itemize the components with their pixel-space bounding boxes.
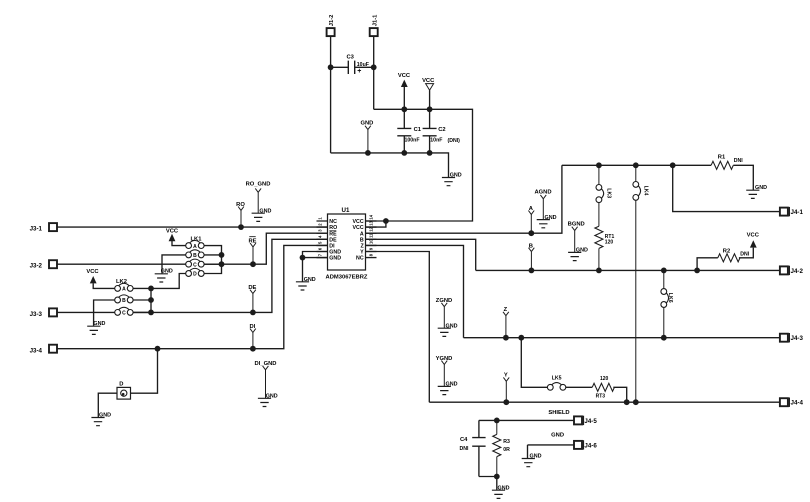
svg-text:J4-2: J4-2 <box>791 268 804 275</box>
ground earth C1 C2 rail <box>442 173 462 186</box>
svg-text:J4-6: J4-6 <box>584 442 597 449</box>
connector J4-2 <box>780 266 788 274</box>
svg-text:Z: Z <box>504 307 508 313</box>
svg-text:ADM3067EBRZ: ADM3067EBRZ <box>326 274 368 280</box>
junction U1 VCC pins <box>383 218 389 224</box>
svg-text:U1: U1 <box>342 207 350 214</box>
svg-text:LK4: LK4 <box>642 186 648 196</box>
wire LK1 row B to ground <box>162 255 186 274</box>
junction J4-3 rail LK6 <box>661 335 667 341</box>
svg-text:J1-1: J1-1 <box>372 14 378 26</box>
svg-text:GND: GND <box>329 250 341 256</box>
svg-text:J4-1: J4-1 <box>791 209 804 216</box>
svg-text:R3: R3 <box>503 439 510 445</box>
svg-text:AGND: AGND <box>534 189 551 195</box>
jumper LK1 row D <box>186 268 204 277</box>
svg-text:GND: GND <box>360 121 373 127</box>
wire RT3 to J4-4 rail <box>613 387 626 402</box>
svg-text:RO: RO <box>329 225 337 231</box>
svg-text:GND: GND <box>551 432 564 438</box>
junction top rail LK3 <box>596 162 602 168</box>
jumper LK5 <box>547 383 565 391</box>
svg-text:J4-3: J4-3 <box>791 335 804 342</box>
svg-text:D: D <box>119 381 123 387</box>
connector J4-1 <box>780 208 788 216</box>
svg-text:B: B <box>122 298 126 304</box>
capacitor C1 100nF <box>403 109 405 153</box>
ground earth LK1 B <box>155 269 173 282</box>
svg-text:J4-4: J4-4 <box>791 400 804 407</box>
svg-text:B: B <box>193 253 197 259</box>
svg-text:DNI: DNI <box>740 252 749 258</box>
svg-text:NC: NC <box>329 219 337 225</box>
junction C3 left <box>328 64 334 70</box>
U1 left pin stubs <box>317 221 328 258</box>
wire LK5 branch <box>521 338 547 388</box>
svg-text:R2: R2 <box>723 248 730 254</box>
capacitor C2 10nF DNI <box>429 109 431 153</box>
wire LK2 right bus <box>133 288 151 312</box>
jumper LK3 <box>598 165 600 226</box>
svg-text:LK6: LK6 <box>667 293 673 303</box>
connector J4-4 <box>780 398 788 406</box>
wire J3-2 to LK1 row C <box>57 263 186 265</box>
wire J3-1 to U1 RO <box>57 226 328 228</box>
svg-text:GND: GND <box>266 394 278 400</box>
svg-text:ZGND: ZGND <box>436 298 452 304</box>
svg-text:J3-1: J3-1 <box>30 226 43 233</box>
junction LK2 bus row C <box>148 310 154 316</box>
wire GND rail <box>331 153 449 177</box>
resistor R2 DNI <box>697 248 753 271</box>
wire U1 Z to J4-3 <box>366 245 780 337</box>
svg-text:13: 13 <box>369 220 374 225</box>
wire LK1 row D to LK2 row A <box>151 274 186 289</box>
svg-text:GND: GND <box>161 269 173 275</box>
junction C3 right <box>371 64 377 70</box>
wire J1-2 to GND rail <box>330 36 332 153</box>
wire GND to J4-6 <box>528 445 574 458</box>
jumper LK1 row B <box>186 250 204 259</box>
junction D loop branch <box>155 346 161 352</box>
wire U1 B to J4-2 <box>366 239 780 270</box>
junction R3 top <box>494 418 500 424</box>
wire J3-3 to LK2 row C <box>57 311 115 313</box>
svg-text:LK1: LK1 <box>191 237 203 243</box>
junction VCC rail C1 <box>401 106 407 112</box>
capacitor C3 10uF <box>331 66 374 68</box>
junction DI test point <box>250 346 256 352</box>
junction LK5 branch <box>518 335 524 341</box>
junction Y test point <box>503 399 509 405</box>
svg-text:100nF: 100nF <box>405 138 420 144</box>
svg-text:GND: GND <box>329 256 341 262</box>
svg-text:Y: Y <box>360 250 364 256</box>
svg-text:C1: C1 <box>414 127 422 133</box>
wire U1 VCC pin13 jog <box>366 221 386 227</box>
jumper LK2 row C <box>115 307 133 316</box>
svg-text:DI: DI <box>329 244 335 250</box>
svg-text:GND: GND <box>530 454 542 460</box>
U1 right pin stubs <box>366 221 377 258</box>
junction GND rail C1 <box>401 150 407 156</box>
svg-text:C: C <box>193 262 197 268</box>
svg-text:BGND: BGND <box>568 222 585 228</box>
jumper LK1 row C <box>186 259 204 268</box>
svg-text:RT3: RT3 <box>596 393 606 399</box>
junction GND rail port <box>365 150 371 156</box>
junction B rail LK6 <box>661 268 667 274</box>
ground earth R1 <box>746 185 767 198</box>
resistor R1 DNI <box>711 161 733 169</box>
wire LK2 row C to U1 DE <box>133 239 327 312</box>
junction DE test point <box>250 310 256 316</box>
svg-text:GND: GND <box>545 215 557 221</box>
connector J4-3 <box>780 334 788 342</box>
svg-text:D: D <box>193 272 197 278</box>
svg-text:DE: DE <box>329 237 337 243</box>
junction B rail R2 <box>694 268 700 274</box>
wire J1-1 to VCC rail <box>373 36 375 109</box>
wire D loop right to J3-4 <box>131 349 158 394</box>
svg-text:J3-2: J3-2 <box>30 263 43 270</box>
connector J1-1 <box>370 28 378 36</box>
svg-text:RO_GND: RO_GND <box>246 181 271 187</box>
svg-text:R1: R1 <box>718 155 726 161</box>
svg-text:+: + <box>357 68 361 75</box>
svg-text:C: C <box>122 311 126 317</box>
svg-text:LK3: LK3 <box>606 188 612 198</box>
junction GND rail C2 <box>427 150 433 156</box>
wire VCC rail <box>366 109 473 221</box>
jumper LK1 row A <box>186 241 204 250</box>
svg-text:GND: GND <box>446 382 458 388</box>
svg-text:A: A <box>193 244 197 250</box>
svg-text:RE: RE <box>329 231 337 237</box>
svg-text:10uF: 10uF <box>357 62 369 68</box>
jumper LK2 row B <box>115 295 133 304</box>
wire A top rail <box>562 165 753 190</box>
svg-text:DNI: DNI <box>460 446 469 452</box>
junction J4-4 rail LK4 <box>633 399 639 405</box>
junction Z test point <box>503 335 509 341</box>
junction U1 GND pins <box>300 255 306 261</box>
svg-text:C4: C4 <box>460 437 468 443</box>
junction LK1 bus row B <box>219 252 225 258</box>
svg-text:GND: GND <box>755 185 767 191</box>
svg-text:VCC: VCC <box>353 225 364 231</box>
wire LK1 right bus <box>204 246 221 274</box>
wire SHIELD to J4-5 <box>479 419 574 421</box>
svg-text:GND: GND <box>450 173 462 179</box>
svg-text:C2: C2 <box>438 127 445 133</box>
svg-text:J3-4: J3-4 <box>30 347 43 354</box>
junction top rail J4-1 branch <box>670 162 676 168</box>
svg-text:SHIELD: SHIELD <box>548 410 569 416</box>
svg-text:LK5: LK5 <box>552 375 562 381</box>
svg-text:YGND: YGND <box>436 356 453 362</box>
ground earth J4-6 <box>522 454 542 467</box>
wire C4 R3 bottom <box>479 477 497 491</box>
junction LK2 bus row A <box>148 286 154 292</box>
wire LK1 row C to U1 RE <box>204 233 327 264</box>
wire LK2 row B to ground <box>94 300 115 326</box>
jumper LK2 row A <box>115 283 133 292</box>
ground earth D loop <box>91 413 111 426</box>
svg-text:GND: GND <box>576 248 588 254</box>
svg-text:Y: Y <box>504 373 508 379</box>
svg-text:A: A <box>360 231 364 237</box>
junction J4-4 rail RT3 <box>624 399 630 405</box>
wire to J4-1 <box>673 165 780 211</box>
svg-text:A: A <box>122 287 126 293</box>
svg-text:VCC: VCC <box>86 269 99 275</box>
svg-text:NC: NC <box>356 256 364 262</box>
svg-text:VCC: VCC <box>353 219 364 225</box>
svg-text:(DNI): (DNI) <box>448 138 461 144</box>
wire U1 Y to J4-4 <box>366 252 780 403</box>
connector J4-6 <box>574 441 582 449</box>
svg-text:J3-3: J3-3 <box>30 311 43 318</box>
svg-text:GND: GND <box>304 277 316 283</box>
svg-text:GND: GND <box>93 321 105 327</box>
svg-text:0R: 0R <box>503 447 510 453</box>
junction top rail LK4 <box>633 162 639 168</box>
svg-text:GND: GND <box>259 208 271 214</box>
junction B test point <box>529 268 535 274</box>
svg-text:C3: C3 <box>347 55 355 61</box>
IC U1 body <box>328 214 366 270</box>
resistor R3 0R <box>496 420 498 476</box>
svg-text:J1-2: J1-2 <box>329 15 335 27</box>
svg-text:120: 120 <box>605 239 614 245</box>
junction RE test point <box>250 261 256 267</box>
capacitor C4 DNI <box>478 420 480 476</box>
svg-text:14: 14 <box>369 214 374 219</box>
junction RO test point <box>238 224 244 230</box>
junction LK1 bus row C <box>219 261 225 267</box>
wire LK5 to RT3 <box>566 386 592 388</box>
svg-text:120: 120 <box>600 376 609 382</box>
svg-text:DI_GND: DI_GND <box>255 361 277 367</box>
svg-text:GND: GND <box>99 413 111 419</box>
svg-text:J4-5: J4-5 <box>584 418 597 425</box>
ground earth U1 <box>296 277 316 290</box>
resistor RT1 120 <box>595 226 603 248</box>
junction R3 bottom <box>494 474 500 480</box>
ground earth R3 <box>492 485 510 498</box>
connector J1-2 <box>327 28 335 36</box>
wire D loop left to ground <box>98 393 117 417</box>
junction LK2 bus row B <box>148 297 154 303</box>
wire J3-4 to U1 DI <box>57 245 328 348</box>
ground earth LK2 B <box>87 321 105 334</box>
svg-text:GND: GND <box>446 323 458 329</box>
svg-text:VCC: VCC <box>166 229 179 235</box>
svg-text:DNI: DNI <box>734 158 743 164</box>
jumper LK4 <box>635 165 637 402</box>
junction A test point <box>528 230 534 236</box>
svg-text:VCC: VCC <box>398 73 411 79</box>
svg-text:GND: GND <box>498 485 510 491</box>
svg-text:B: B <box>360 237 364 243</box>
wire U1 GND pins <box>303 252 328 282</box>
wire U1 A to top rail <box>366 165 562 233</box>
connector J4-5 <box>574 416 582 424</box>
resistor RT3 120 <box>592 383 614 391</box>
svg-text:10nF: 10nF <box>430 138 442 144</box>
jumper LK6 <box>663 270 665 337</box>
junction B rail RT1 <box>596 268 602 274</box>
junction VCC rail C2 <box>427 106 433 112</box>
svg-text:VCC: VCC <box>747 232 760 238</box>
